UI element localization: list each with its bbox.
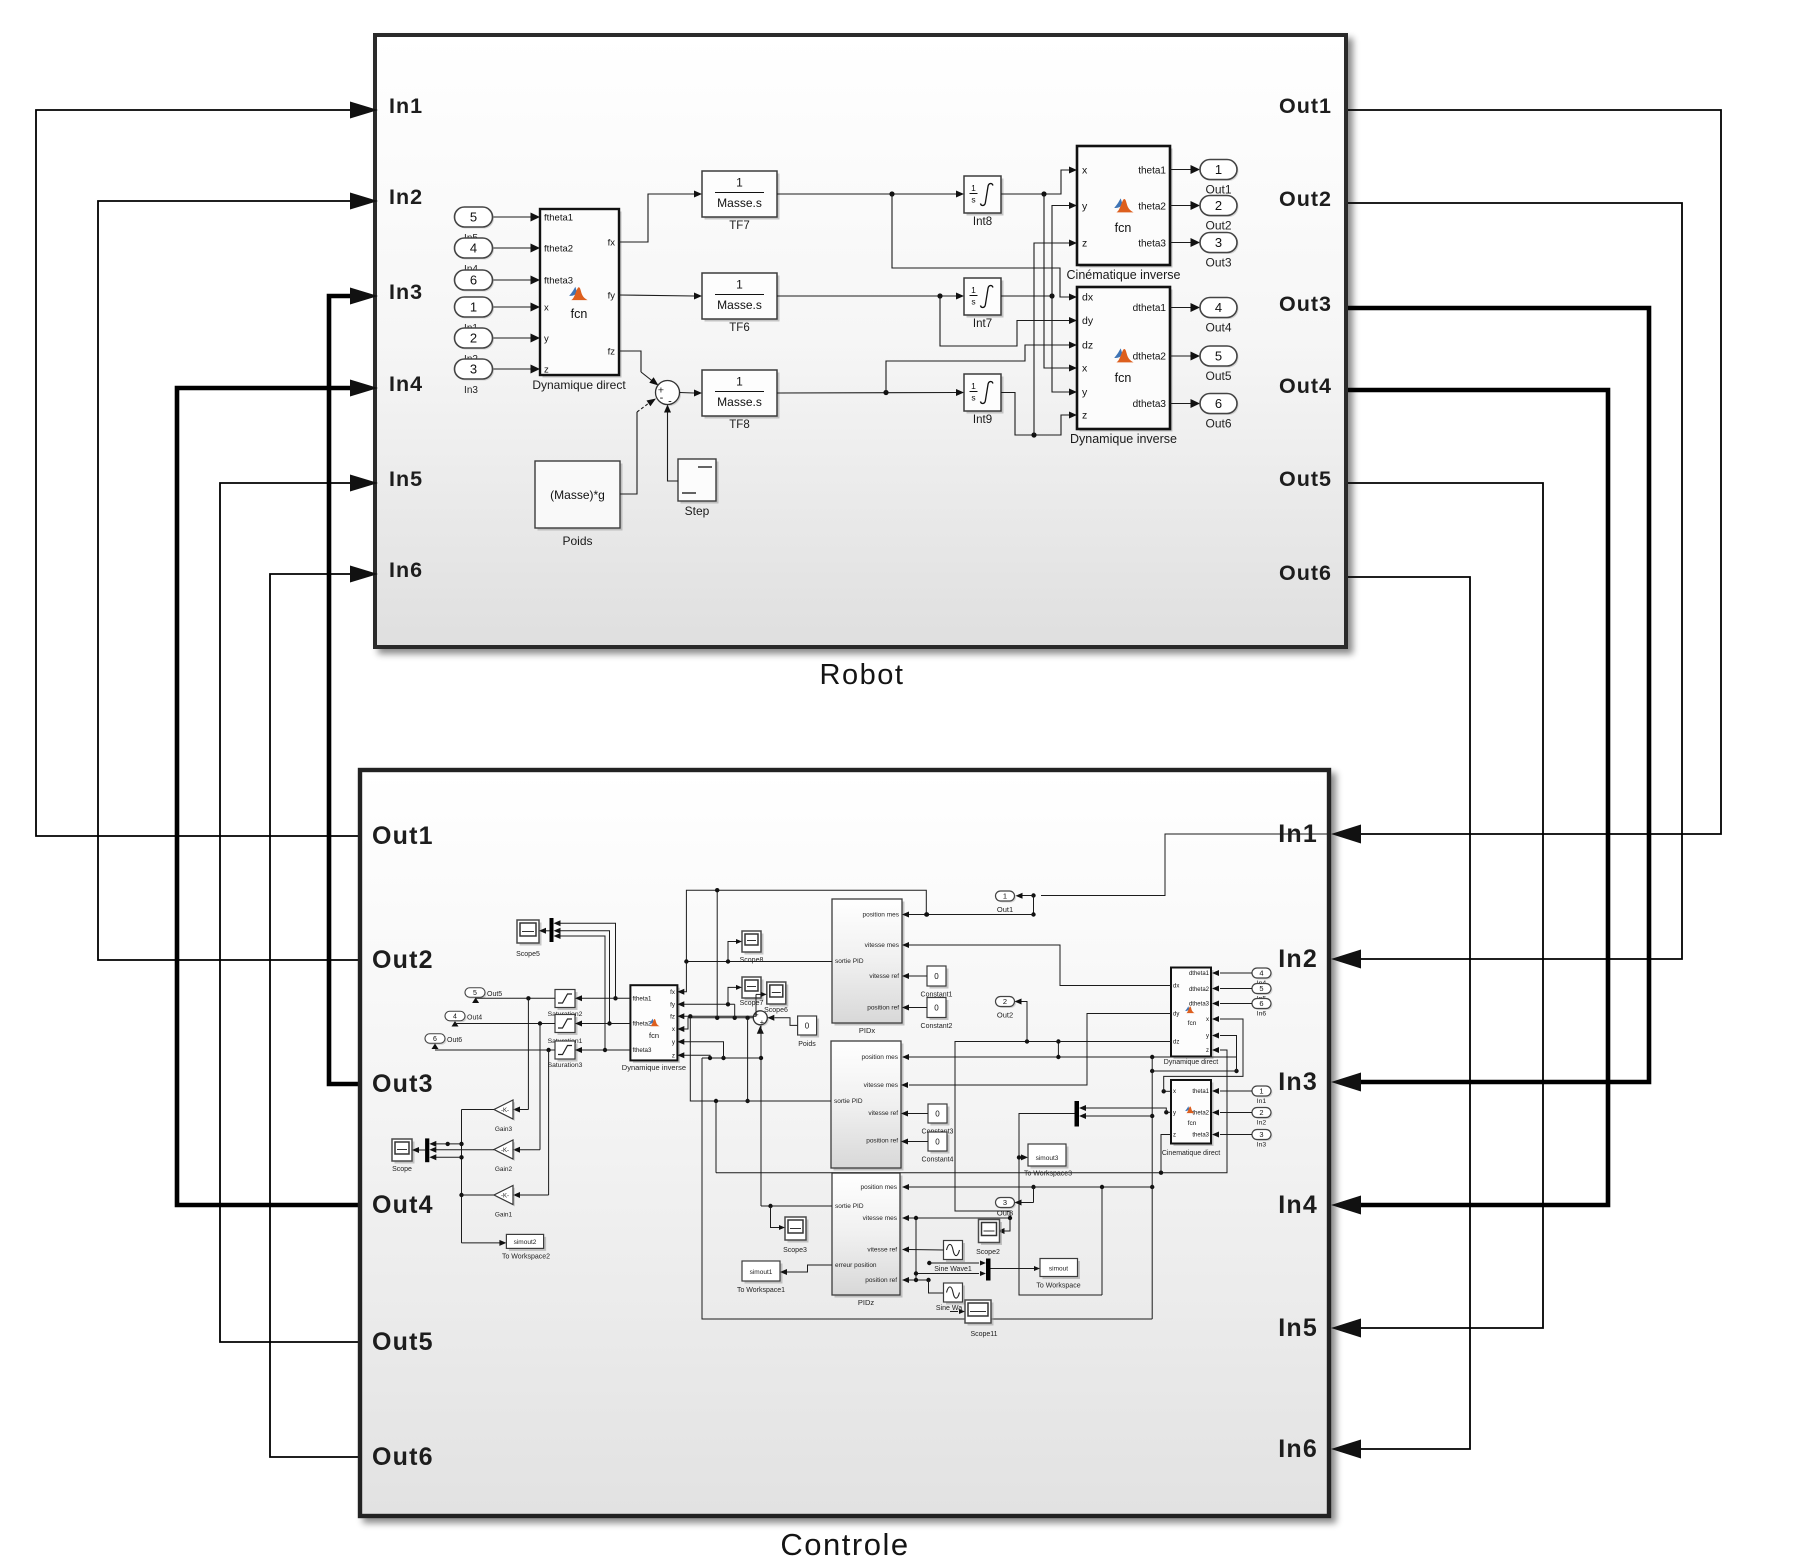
svg-text:In3: In3 (1257, 1142, 1267, 1149)
svg-text:Sine Wa: Sine Wa (936, 1305, 962, 1312)
svg-text:Scope5: Scope5 (516, 951, 540, 958)
svg-text:Out5: Out5 (1205, 369, 1231, 383)
svg-text:theta3: theta3 (1192, 1133, 1209, 1139)
svg-text:Sine Wave1: Sine Wave1 (934, 1266, 972, 1273)
svg-text:In2: In2 (1278, 945, 1318, 973)
svg-text:sortie PID: sortie PID (834, 1098, 863, 1105)
svg-text:Scope: Scope (392, 1166, 412, 1173)
svg-text:Dynamique direct: Dynamique direct (1164, 1059, 1219, 1066)
svg-text:theta3: theta3 (1138, 239, 1166, 250)
svg-text:vitesse mes: vitesse mes (864, 1082, 899, 1089)
svg-text:Int7: Int7 (973, 318, 992, 330)
svg-text:Step: Step (685, 504, 710, 518)
svg-text:Out1: Out1 (997, 905, 1013, 914)
svg-text:Scope6: Scope6 (764, 1007, 788, 1014)
svg-text:Masse.s: Masse.s (717, 298, 762, 312)
svg-text:To Workspace: To Workspace (1036, 1283, 1080, 1290)
svg-text:dtheta2: dtheta2 (1133, 352, 1167, 363)
svg-text:In4: In4 (389, 372, 423, 396)
svg-text:ftheta2: ftheta2 (544, 244, 573, 255)
svg-text:Scope11: Scope11 (970, 1331, 997, 1338)
svg-text:1: 1 (1003, 892, 1007, 901)
svg-text:Dynamique inverse: Dynamique inverse (622, 1063, 686, 1072)
svg-text:fcn: fcn (1115, 221, 1132, 235)
svg-text:In1: In1 (1257, 1098, 1267, 1105)
svg-text:Out5: Out5 (487, 991, 502, 998)
svg-text:-K-: -K- (501, 1193, 509, 1199)
svg-text:Cinematique direct: Cinematique direct (1162, 1150, 1220, 1157)
svg-text:Out2: Out2 (1279, 187, 1332, 211)
svg-text:fcn: fcn (1188, 1120, 1197, 1127)
svg-text:4: 4 (453, 1014, 457, 1021)
svg-text:simout3: simout3 (1036, 1155, 1059, 1162)
svg-text:Poids: Poids (562, 534, 592, 548)
svg-text:simout2: simout2 (514, 1239, 537, 1246)
svg-text:In3: In3 (464, 385, 478, 396)
svg-text:position ref: position ref (866, 1138, 898, 1145)
svg-text:0: 0 (935, 1110, 940, 1119)
svg-text:-K-: -K- (501, 1108, 509, 1114)
svg-text:position mes: position mes (862, 1054, 899, 1061)
svg-text:x: x (1173, 1089, 1176, 1095)
svg-text:3: 3 (1215, 235, 1222, 250)
svg-text:vitesse mes: vitesse mes (865, 942, 900, 949)
svg-text:theta1: theta1 (1192, 1089, 1209, 1095)
svg-text:1: 1 (470, 300, 477, 315)
svg-text:dtheta2: dtheta2 (1189, 987, 1210, 993)
svg-text:0: 0 (805, 1022, 810, 1031)
svg-text:Poids: Poids (798, 1041, 816, 1048)
svg-text:Out6: Out6 (372, 1443, 434, 1471)
svg-text:z: z (1173, 1133, 1176, 1139)
svg-text:Cinématique inverse: Cinématique inverse (1067, 268, 1181, 282)
svg-text:z: z (544, 365, 549, 376)
svg-text:6: 6 (1259, 999, 1263, 1008)
svg-text:x: x (1082, 165, 1088, 177)
svg-text:PIDz: PIDz (858, 1298, 875, 1307)
svg-text:position ref: position ref (865, 1277, 897, 1284)
svg-text:y: y (1173, 1111, 1176, 1117)
svg-text:1: 1 (1215, 162, 1222, 177)
svg-text:2: 2 (1259, 1108, 1263, 1117)
svg-text:+: + (754, 1010, 759, 1019)
svg-text:5: 5 (1259, 984, 1263, 993)
svg-text:Out3: Out3 (1279, 292, 1332, 316)
svg-text:TF6: TF6 (729, 322, 749, 334)
svg-text:1: 1 (1259, 1087, 1263, 1096)
svg-text:2: 2 (1003, 997, 1007, 1006)
svg-text:+: + (760, 1018, 765, 1027)
svg-text:dtheta3: dtheta3 (1189, 1002, 1210, 1008)
svg-text:fcn: fcn (649, 1031, 659, 1040)
svg-text:1: 1 (971, 183, 976, 193)
svg-text:vitesse ref: vitesse ref (869, 973, 899, 980)
svg-text:vitesse ref: vitesse ref (868, 1110, 898, 1117)
svg-text:fz: fz (608, 347, 616, 358)
svg-text:z: z (1206, 1048, 1209, 1054)
svg-text:ftheta1: ftheta1 (544, 213, 573, 224)
svg-text:Out1: Out1 (1279, 94, 1332, 118)
svg-text:Scope3: Scope3 (783, 1247, 807, 1254)
svg-text:fcn: fcn (571, 307, 588, 321)
svg-text:y: y (1082, 387, 1088, 399)
svg-text:5: 5 (473, 990, 477, 997)
svg-text:3: 3 (1003, 1198, 1007, 1207)
svg-text:y: y (544, 334, 549, 345)
svg-text:3: 3 (470, 362, 477, 377)
svg-text:In6: In6 (1278, 1435, 1318, 1463)
svg-text:x: x (1082, 363, 1088, 375)
svg-text:In5: In5 (1278, 1314, 1318, 1342)
svg-text:In6: In6 (389, 558, 423, 582)
svg-text:dz: dz (1082, 340, 1093, 352)
svg-text:Constant4: Constant4 (922, 1157, 954, 1164)
svg-text:In5: In5 (389, 467, 423, 491)
svg-text:Scope8: Scope8 (740, 957, 764, 964)
svg-text:Out4: Out4 (1205, 321, 1231, 335)
svg-text:Out6: Out6 (1279, 561, 1332, 585)
svg-text:4: 4 (1215, 300, 1222, 315)
svg-text:Int8: Int8 (973, 216, 992, 228)
svg-text:Out6: Out6 (447, 1037, 462, 1044)
svg-text:theta2: theta2 (1192, 1111, 1209, 1117)
svg-text:Dynamique inverse: Dynamique inverse (1070, 432, 1177, 446)
svg-text:Out2: Out2 (372, 946, 434, 974)
svg-text:Gain1: Gain1 (495, 1212, 513, 1219)
svg-text:Scope2: Scope2 (976, 1249, 1000, 1256)
svg-text:In3: In3 (1278, 1068, 1318, 1096)
svg-text:Constant2: Constant2 (921, 1023, 953, 1030)
svg-text:fz: fz (670, 1014, 675, 1021)
svg-text:1: 1 (736, 176, 743, 190)
svg-text:1: 1 (736, 375, 743, 389)
svg-text:Out3: Out3 (1205, 256, 1231, 270)
svg-text:Out2: Out2 (997, 1011, 1013, 1020)
svg-text:Out1: Out1 (1205, 183, 1231, 197)
svg-text:Masse.s: Masse.s (717, 395, 762, 409)
svg-text:dtheta1: dtheta1 (1189, 971, 1210, 977)
svg-text:2: 2 (1215, 198, 1222, 213)
svg-text:Out4: Out4 (467, 1015, 482, 1022)
svg-text:x: x (1206, 1017, 1209, 1023)
svg-text:erreur position: erreur position (835, 1262, 877, 1269)
svg-text:s: s (971, 297, 975, 307)
svg-text:3: 3 (1259, 1130, 1263, 1139)
svg-text:dx: dx (1082, 292, 1094, 304)
svg-text:0: 0 (934, 972, 939, 981)
svg-text:Out2: Out2 (1205, 219, 1231, 233)
svg-text:Out5: Out5 (1279, 467, 1332, 491)
svg-text:6: 6 (1215, 396, 1222, 411)
svg-text:To Workspace2: To Workspace2 (502, 1254, 550, 1261)
svg-text:To Workspace3: To Workspace3 (1024, 1171, 1072, 1178)
svg-text:dy: dy (1173, 1012, 1179, 1018)
svg-text:-: - (660, 392, 664, 404)
svg-text:Robot: Robot (820, 659, 905, 691)
svg-text:5: 5 (1215, 349, 1222, 364)
svg-text:vitesse mes: vitesse mes (863, 1215, 898, 1222)
svg-text:PIDx: PIDx (859, 1026, 876, 1035)
svg-text:ftheta3: ftheta3 (633, 1047, 652, 1054)
svg-text:sortie PID: sortie PID (835, 958, 864, 965)
svg-text:z: z (1082, 238, 1087, 250)
svg-text:z: z (672, 1052, 675, 1059)
svg-text:Out6: Out6 (1205, 417, 1231, 431)
svg-text:TF7: TF7 (729, 220, 749, 232)
svg-text:position mes: position mes (861, 1184, 898, 1191)
svg-text:y: y (1082, 201, 1088, 213)
svg-text:In3: In3 (389, 280, 423, 304)
svg-text:TF8: TF8 (729, 419, 749, 431)
svg-text:1: 1 (971, 285, 976, 295)
svg-text:6: 6 (433, 1036, 437, 1043)
svg-text:In2: In2 (389, 185, 423, 209)
svg-text:0: 0 (935, 1138, 940, 1147)
svg-text:dtheta3: dtheta3 (1133, 399, 1167, 410)
svg-text:sortie PID: sortie PID (835, 1203, 864, 1210)
svg-text:Out5: Out5 (372, 1328, 434, 1356)
svg-text:dz: dz (1173, 1040, 1179, 1046)
svg-text:position ref: position ref (867, 1005, 899, 1012)
svg-text:Scope7: Scope7 (740, 1000, 764, 1007)
svg-text:x: x (544, 303, 549, 314)
svg-text:s: s (971, 195, 975, 205)
svg-text:Out4: Out4 (1279, 374, 1332, 398)
svg-text:4: 4 (470, 241, 477, 256)
svg-text:-: - (668, 396, 672, 408)
svg-text:Controle: Controle (780, 1527, 909, 1558)
svg-text:theta1: theta1 (1138, 166, 1166, 177)
svg-text:dy: dy (1082, 315, 1094, 327)
svg-text:dx: dx (1173, 984, 1179, 990)
svg-text:dtheta1: dtheta1 (1133, 303, 1167, 314)
svg-text:ftheta1: ftheta1 (633, 996, 652, 1003)
svg-text:simout: simout (1049, 1266, 1068, 1273)
svg-text:fx: fx (608, 238, 616, 249)
svg-text:vitesse ref: vitesse ref (867, 1247, 897, 1254)
svg-text:Gain2: Gain2 (495, 1166, 513, 1173)
svg-text:(Masse)*g: (Masse)*g (550, 488, 605, 502)
svg-text:Out4: Out4 (372, 1191, 434, 1219)
svg-text:Out1: Out1 (372, 822, 434, 850)
svg-text:y: y (1206, 1034, 1209, 1040)
svg-text:-K-: -K- (501, 1148, 509, 1154)
svg-text:fy: fy (608, 291, 616, 302)
svg-text:To Workspace1: To Workspace1 (737, 1287, 785, 1294)
svg-text:Out3: Out3 (372, 1070, 434, 1098)
svg-text:ftheta3: ftheta3 (544, 276, 573, 287)
svg-text:4: 4 (1259, 969, 1263, 978)
svg-text:fcn: fcn (1188, 1020, 1197, 1027)
svg-text:Int9: Int9 (973, 414, 992, 426)
svg-text:1: 1 (971, 381, 976, 391)
svg-text:In2: In2 (1257, 1120, 1267, 1127)
svg-text:Saturation3: Saturation3 (548, 1062, 583, 1069)
svg-text:Gain3: Gain3 (495, 1126, 513, 1133)
svg-text:s: s (971, 393, 975, 403)
svg-text:simout1: simout1 (750, 1269, 773, 1276)
svg-text:5: 5 (470, 210, 477, 225)
svg-text:theta2: theta2 (1138, 202, 1166, 213)
svg-text:fcn: fcn (1115, 371, 1132, 385)
svg-text:In1: In1 (389, 94, 423, 118)
svg-text:z: z (1082, 410, 1087, 422)
svg-text:2: 2 (470, 331, 477, 346)
svg-text:Dynamique direct: Dynamique direct (532, 378, 626, 392)
svg-text:Masse.s: Masse.s (717, 196, 762, 210)
svg-text:In6: In6 (1257, 1011, 1267, 1018)
svg-text:6: 6 (470, 273, 477, 288)
svg-text:position mes: position mes (863, 912, 900, 919)
svg-text:1: 1 (736, 278, 743, 292)
svg-text:0: 0 (934, 1004, 939, 1013)
svg-text:In4: In4 (1278, 1191, 1318, 1219)
svg-text:ftheta2: ftheta2 (633, 1021, 652, 1028)
